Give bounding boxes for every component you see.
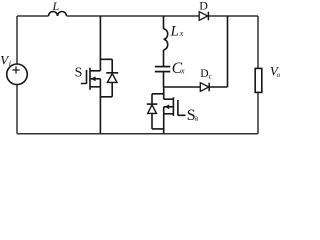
wire Cx down to node [163, 72, 165, 87]
arrow of Sa pointing left [164, 105, 169, 110]
svg-text:c: c [209, 72, 212, 80]
capacitor Cx [155, 67, 171, 72]
wire right vertical (load branch) [257, 16, 259, 134]
load resistor Vo [255, 68, 262, 92]
inductor L [49, 12, 67, 17]
voltage source Vi [7, 64, 28, 85]
arrow of S pointing left [91, 76, 96, 81]
wire bottom rail [17, 133, 258, 135]
body diode of S [100, 59, 118, 97]
wire S drain vertical [99, 16, 101, 71]
diode D (top rail) [199, 12, 208, 21]
wire S source vertical [99, 79, 101, 134]
svg-text:D: D [199, 0, 208, 13]
wire Sa drain vertical [163, 87, 165, 99]
diode Dc [200, 83, 209, 92]
wire node horizontal to Dc [164, 86, 201, 88]
svg-text:S: S [75, 65, 83, 80]
svg-text:D: D [200, 67, 208, 80]
svg-text:i: i [9, 59, 11, 68]
transistor S (MOSFET) [81, 68, 101, 90]
wire top rail right segment [208, 15, 258, 17]
wire between Lx and Cx [163, 50, 165, 67]
svg-text:a: a [195, 114, 199, 123]
wire Sa source vertical [163, 107, 165, 134]
wire left vertical (Vi branch) [16, 16, 18, 134]
wire Dc to riser [209, 86, 227, 88]
svg-text:x: x [179, 29, 184, 38]
svg-text:o: o [277, 70, 280, 79]
wire top rail middle segment [67, 15, 200, 17]
svg-text:L: L [170, 24, 179, 40]
svg-text:L: L [52, 0, 60, 13]
wire riser to top rail [227, 16, 229, 87]
svg-text:x: x [180, 67, 185, 76]
wire top rail left segment [17, 15, 49, 17]
wire La branch top [163, 16, 165, 29]
body diode of Sa [147, 94, 164, 129]
inductor Lx (vertical) [164, 29, 168, 50]
